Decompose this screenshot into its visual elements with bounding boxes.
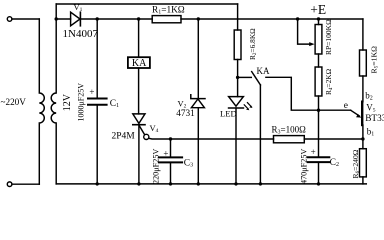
node rail-SCR	[137, 182, 140, 185]
svg-text:e: e	[344, 101, 348, 111]
wire b1	[362, 125, 364, 139]
svg-text:R6=240Ω: R6=240Ω	[351, 149, 361, 178]
potentiometer RP	[318, 19, 320, 25]
svg-text:1000μF25V: 1000μF25V	[77, 83, 86, 122]
svg-text:BT33: BT33	[365, 114, 384, 124]
diode V1	[71, 12, 80, 26]
switch KA contact	[238, 76, 252, 78]
wire ground rail	[56, 183, 366, 185]
node rail-switch	[259, 182, 262, 185]
transistor V5 BT33	[361, 102, 363, 125]
svg-text:~220V: ~220V	[1, 97, 27, 107]
resistor R2	[237, 4, 239, 30]
node KA-top	[137, 17, 140, 20]
svg-text:C1: C1	[110, 99, 119, 109]
wire top rail	[56, 3, 237, 5]
node rail-C1	[96, 182, 99, 185]
svg-text:KA: KA	[257, 66, 270, 76]
svg-text:R5=1KΩ: R5=1KΩ	[370, 46, 380, 74]
terminal top-left	[7, 17, 12, 22]
wire	[138, 68, 140, 114]
svg-text:R2=6.8KΩ: R2=6.8KΩ	[248, 28, 258, 60]
wire	[80, 18, 152, 20]
terminal bottom-left	[7, 182, 12, 187]
capacitor C1	[96, 19, 98, 98]
svg-text:LED: LED	[220, 109, 237, 119]
svg-text:1N4007: 1N4007	[63, 28, 99, 40]
capacitor C3	[170, 139, 172, 157]
resistor R3	[274, 136, 305, 143]
node rail-LED	[234, 182, 237, 185]
wire	[266, 77, 351, 110]
node rail-C3	[169, 182, 172, 185]
node switch	[236, 76, 239, 79]
wire	[12, 183, 39, 185]
node b1	[361, 137, 364, 140]
svg-text:V4: V4	[150, 123, 159, 134]
relay coil KA	[138, 19, 140, 57]
zener V2	[197, 19, 199, 99]
node RP-top	[317, 17, 320, 20]
wiper arrow	[298, 19, 310, 44]
transformer T secondary	[51, 4, 56, 184]
svg-text:12V: 12V	[62, 93, 73, 111]
svg-text:+: +	[311, 147, 316, 157]
svg-text:C2: C2	[330, 158, 339, 168]
wire	[56, 18, 70, 20]
svg-text:2P4M: 2P4M	[112, 131, 136, 141]
resistor R1	[152, 16, 181, 23]
svg-text:220μF25V: 220μF25V	[152, 149, 161, 184]
svg-text:R4=2KΩ: R4=2KΩ	[324, 68, 334, 95]
svg-text:V5: V5	[366, 103, 376, 114]
node C1-top	[96, 17, 99, 20]
node C3-top	[169, 137, 172, 140]
node wiper-top	[296, 17, 299, 20]
svg-text:V2: V2	[178, 98, 187, 109]
node rail-C2	[317, 182, 320, 185]
transformer T primary	[39, 19, 44, 184]
resistor R5	[362, 19, 364, 50]
thyristor V4 2P4M	[133, 114, 145, 124]
svg-text:+: +	[89, 87, 94, 97]
node rail-zener	[197, 182, 200, 185]
svg-text:KA: KA	[132, 58, 147, 69]
node zener-top	[197, 17, 200, 20]
wire	[12, 18, 39, 20]
node e	[317, 109, 320, 112]
svg-text:470μF25V: 470μF25V	[300, 149, 309, 184]
svg-text:R1=1KΩ: R1=1KΩ	[152, 6, 185, 16]
LED	[237, 77, 239, 96]
resistor R4	[315, 67, 322, 96]
svg-text:+: +	[163, 148, 168, 158]
svg-text:RP=100KΩ: RP=100KΩ	[324, 19, 333, 55]
svg-text:b1: b1	[367, 127, 375, 138]
svg-text:4731: 4731	[176, 109, 195, 119]
capacitor C2	[318, 110, 320, 156]
svg-text:b2: b2	[365, 91, 373, 102]
svg-text:R3=100Ω: R3=100Ω	[272, 125, 307, 136]
wire	[181, 18, 363, 20]
resistor R6	[362, 139, 364, 149]
node secondary-top	[55, 17, 58, 20]
svg-text:+E: +E	[310, 2, 326, 17]
wire gate	[149, 137, 274, 140]
svg-text:C3: C3	[184, 159, 193, 169]
